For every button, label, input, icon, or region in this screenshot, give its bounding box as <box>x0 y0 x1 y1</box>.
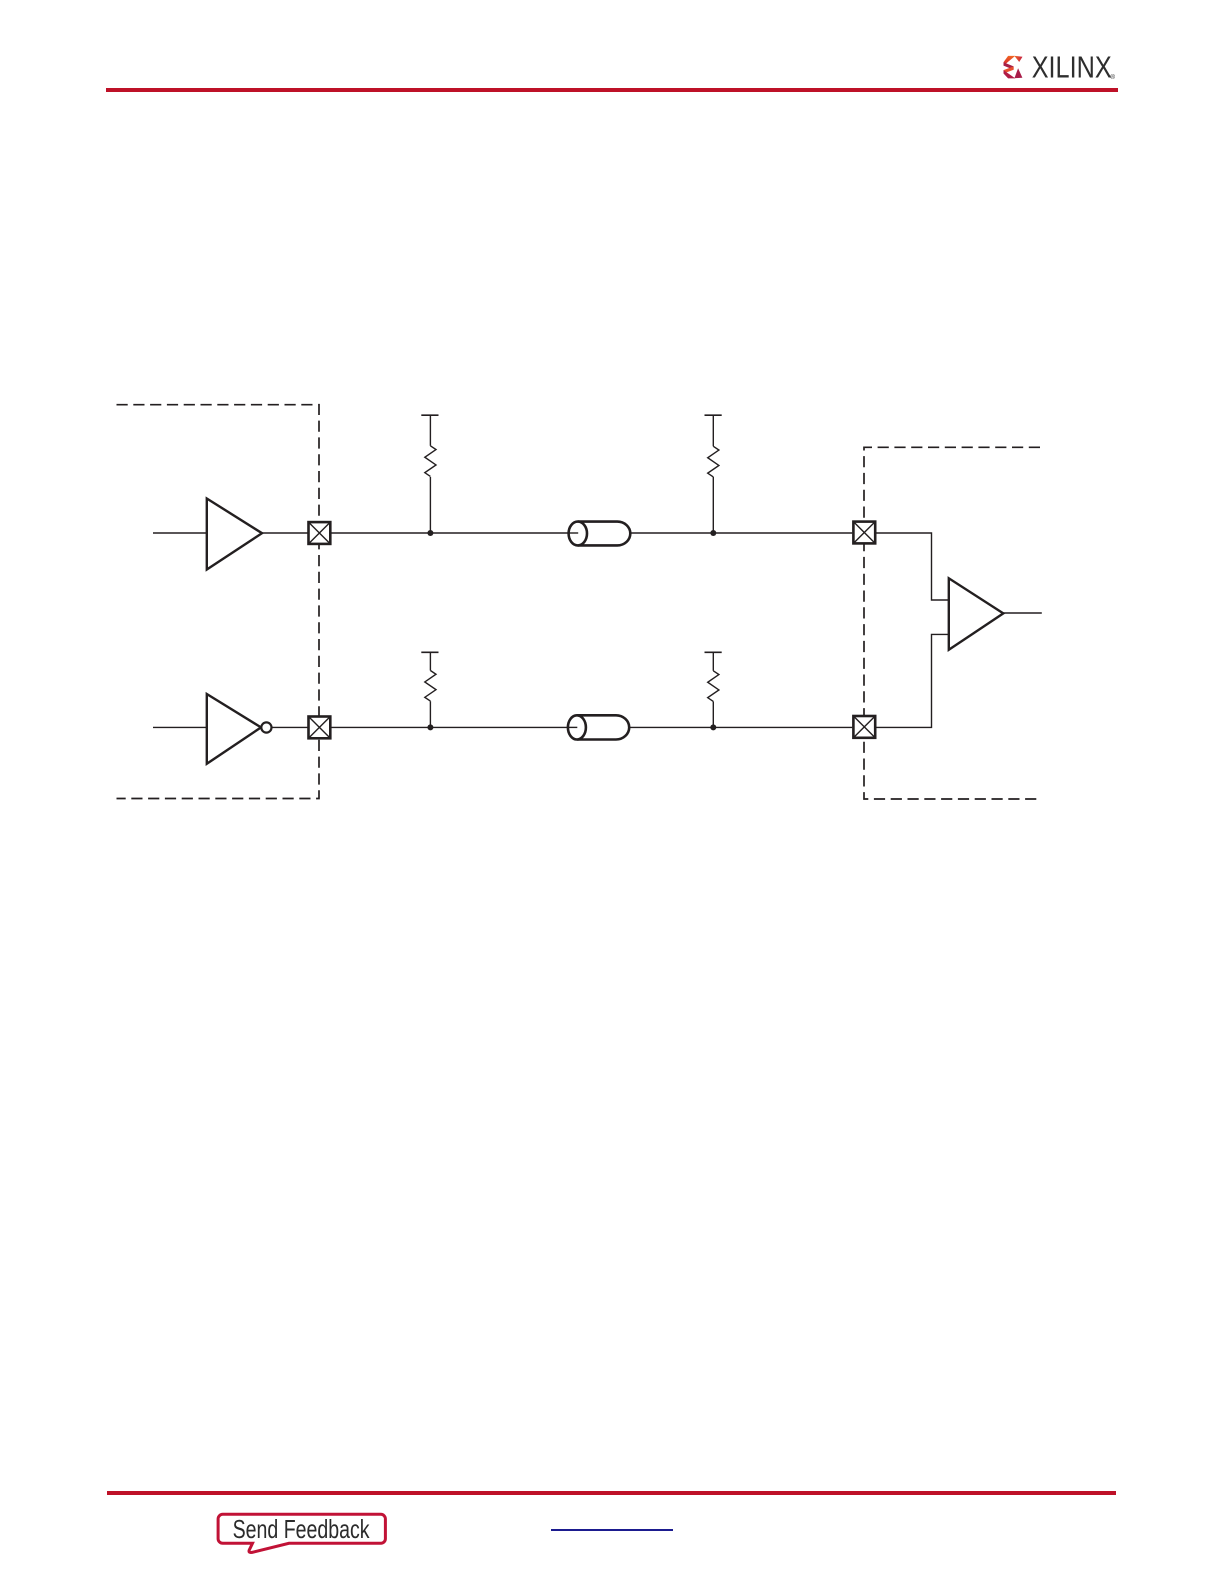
header rule <box>106 88 1118 91</box>
junction node R1/wire <box>427 530 433 536</box>
resistor R1 pull-up top left <box>421 415 438 533</box>
inverter U2 bubble <box>261 722 271 732</box>
footer link underline <box>551 1529 673 1531</box>
footer rule <box>107 1491 1116 1495</box>
logo X-mark ribbon segment 3 <box>1004 66 1014 73</box>
inverter U2 bottom driver <box>207 694 261 764</box>
wire stub into T1 left ellipse <box>569 532 579 534</box>
wire P1 to transmission line T1 <box>332 532 579 534</box>
resistor R2 pull-up top right <box>705 415 722 533</box>
wire U1 output to pad P1 <box>262 532 308 534</box>
wire U2 output to pad P3 <box>272 726 308 728</box>
transmission line T2 bottom <box>568 715 629 739</box>
junction node R2/wire <box>710 530 716 536</box>
resistor R3 pull-up bottom left <box>421 652 438 727</box>
svg-text:Send Feedback: Send Feedback <box>233 1514 371 1544</box>
pad P4 bottom right IO <box>853 716 875 738</box>
logo X-mark ribbon segment 2 <box>1004 62 1014 70</box>
wire P4 to receiver lower input <box>876 634 949 727</box>
logo X-mark ribbon segment 1 <box>1004 56 1023 79</box>
logo X-mark right top arm <box>1014 56 1022 62</box>
wire input to inverter U2 <box>153 726 207 728</box>
wire P2 to receiver upper input <box>876 533 949 600</box>
junction node R3/wire <box>427 724 433 730</box>
pad P2 top right IO <box>853 522 875 544</box>
buffer U1 top driver <box>207 499 262 570</box>
wire input to driver U1 <box>153 532 207 534</box>
transmission line T1 top <box>569 522 631 546</box>
wire P3 to transmission line T2 <box>332 726 578 728</box>
dashed box right device (open on right) <box>864 447 1040 799</box>
junction node R4/wire <box>710 724 716 730</box>
wire T2 to pad P4 <box>629 726 852 728</box>
pad P1 top left IO <box>309 522 331 544</box>
logo X-mark right bottom arm <box>1014 68 1022 78</box>
wire T1 to pad P2 <box>630 532 852 534</box>
resistor R4 pull-up bottom right <box>705 652 722 727</box>
wire receiver output <box>1003 612 1042 614</box>
dashed box left device (open on left) <box>117 405 320 799</box>
logo X-mark ribbon segment 4 <box>1004 70 1016 78</box>
receiver U3 differential buffer <box>949 578 1004 650</box>
wire stub into T2 left ellipse <box>568 726 577 728</box>
Xilinx logo <box>1002 54 1122 82</box>
pad P3 bottom left IO <box>309 717 331 739</box>
Send Feedback button <box>210 1505 400 1563</box>
